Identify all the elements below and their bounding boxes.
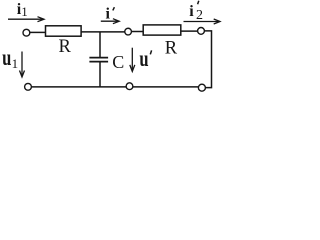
arrow i' [101,19,119,24]
svg-text:i: i [189,3,194,20]
wire: R1 to middle node [81,31,125,33]
svg-text:u: u [2,45,11,70]
wire: bottom rail [31,86,198,88]
terminal 4 (bottom-right terminal) [198,84,205,91]
label u1 (input voltage) [2,45,18,71]
terminal 1 (top-left input terminal) [23,29,30,36]
label u' (capacitor voltage) [139,46,151,71]
svg-text:C: C [112,52,124,72]
wire: terminal 2 to right corner, down right side [204,31,211,88]
wire: capacitor branch upper [99,32,101,57]
label i2' (output current) [189,1,203,23]
svg-text:1: 1 [21,4,28,19]
resistor R2 [143,25,181,35]
capacitor C plates [89,58,108,62]
svg-text:u: u [139,46,148,71]
svg-text:R: R [165,38,178,58]
wire: node to R2 [132,31,144,33]
label i' (middle current) [106,6,115,23]
svg-text:i: i [106,6,111,23]
wire: terminal 1 to R1 [30,31,46,33]
svg-text:1: 1 [12,56,19,71]
svg-text:2: 2 [196,8,203,23]
node: middle circle on bottom rail [126,83,133,90]
arrow u1 (down) [20,52,25,78]
svg-text:R: R [59,37,72,57]
node: middle circle on top wire [125,28,132,35]
resistor R1 [46,26,82,36]
terminal 2 (top-right output terminal) [198,28,205,35]
arrow i1 [8,17,44,22]
wire: R2 to terminal 2 [181,30,198,32]
label i1 (input current) [17,1,28,19]
wire: capacitor branch lower [99,62,101,87]
arrow i2' [184,19,221,24]
terminal 3 (bottom-left terminal) [25,83,32,90]
arrow u' (down) [130,48,135,72]
